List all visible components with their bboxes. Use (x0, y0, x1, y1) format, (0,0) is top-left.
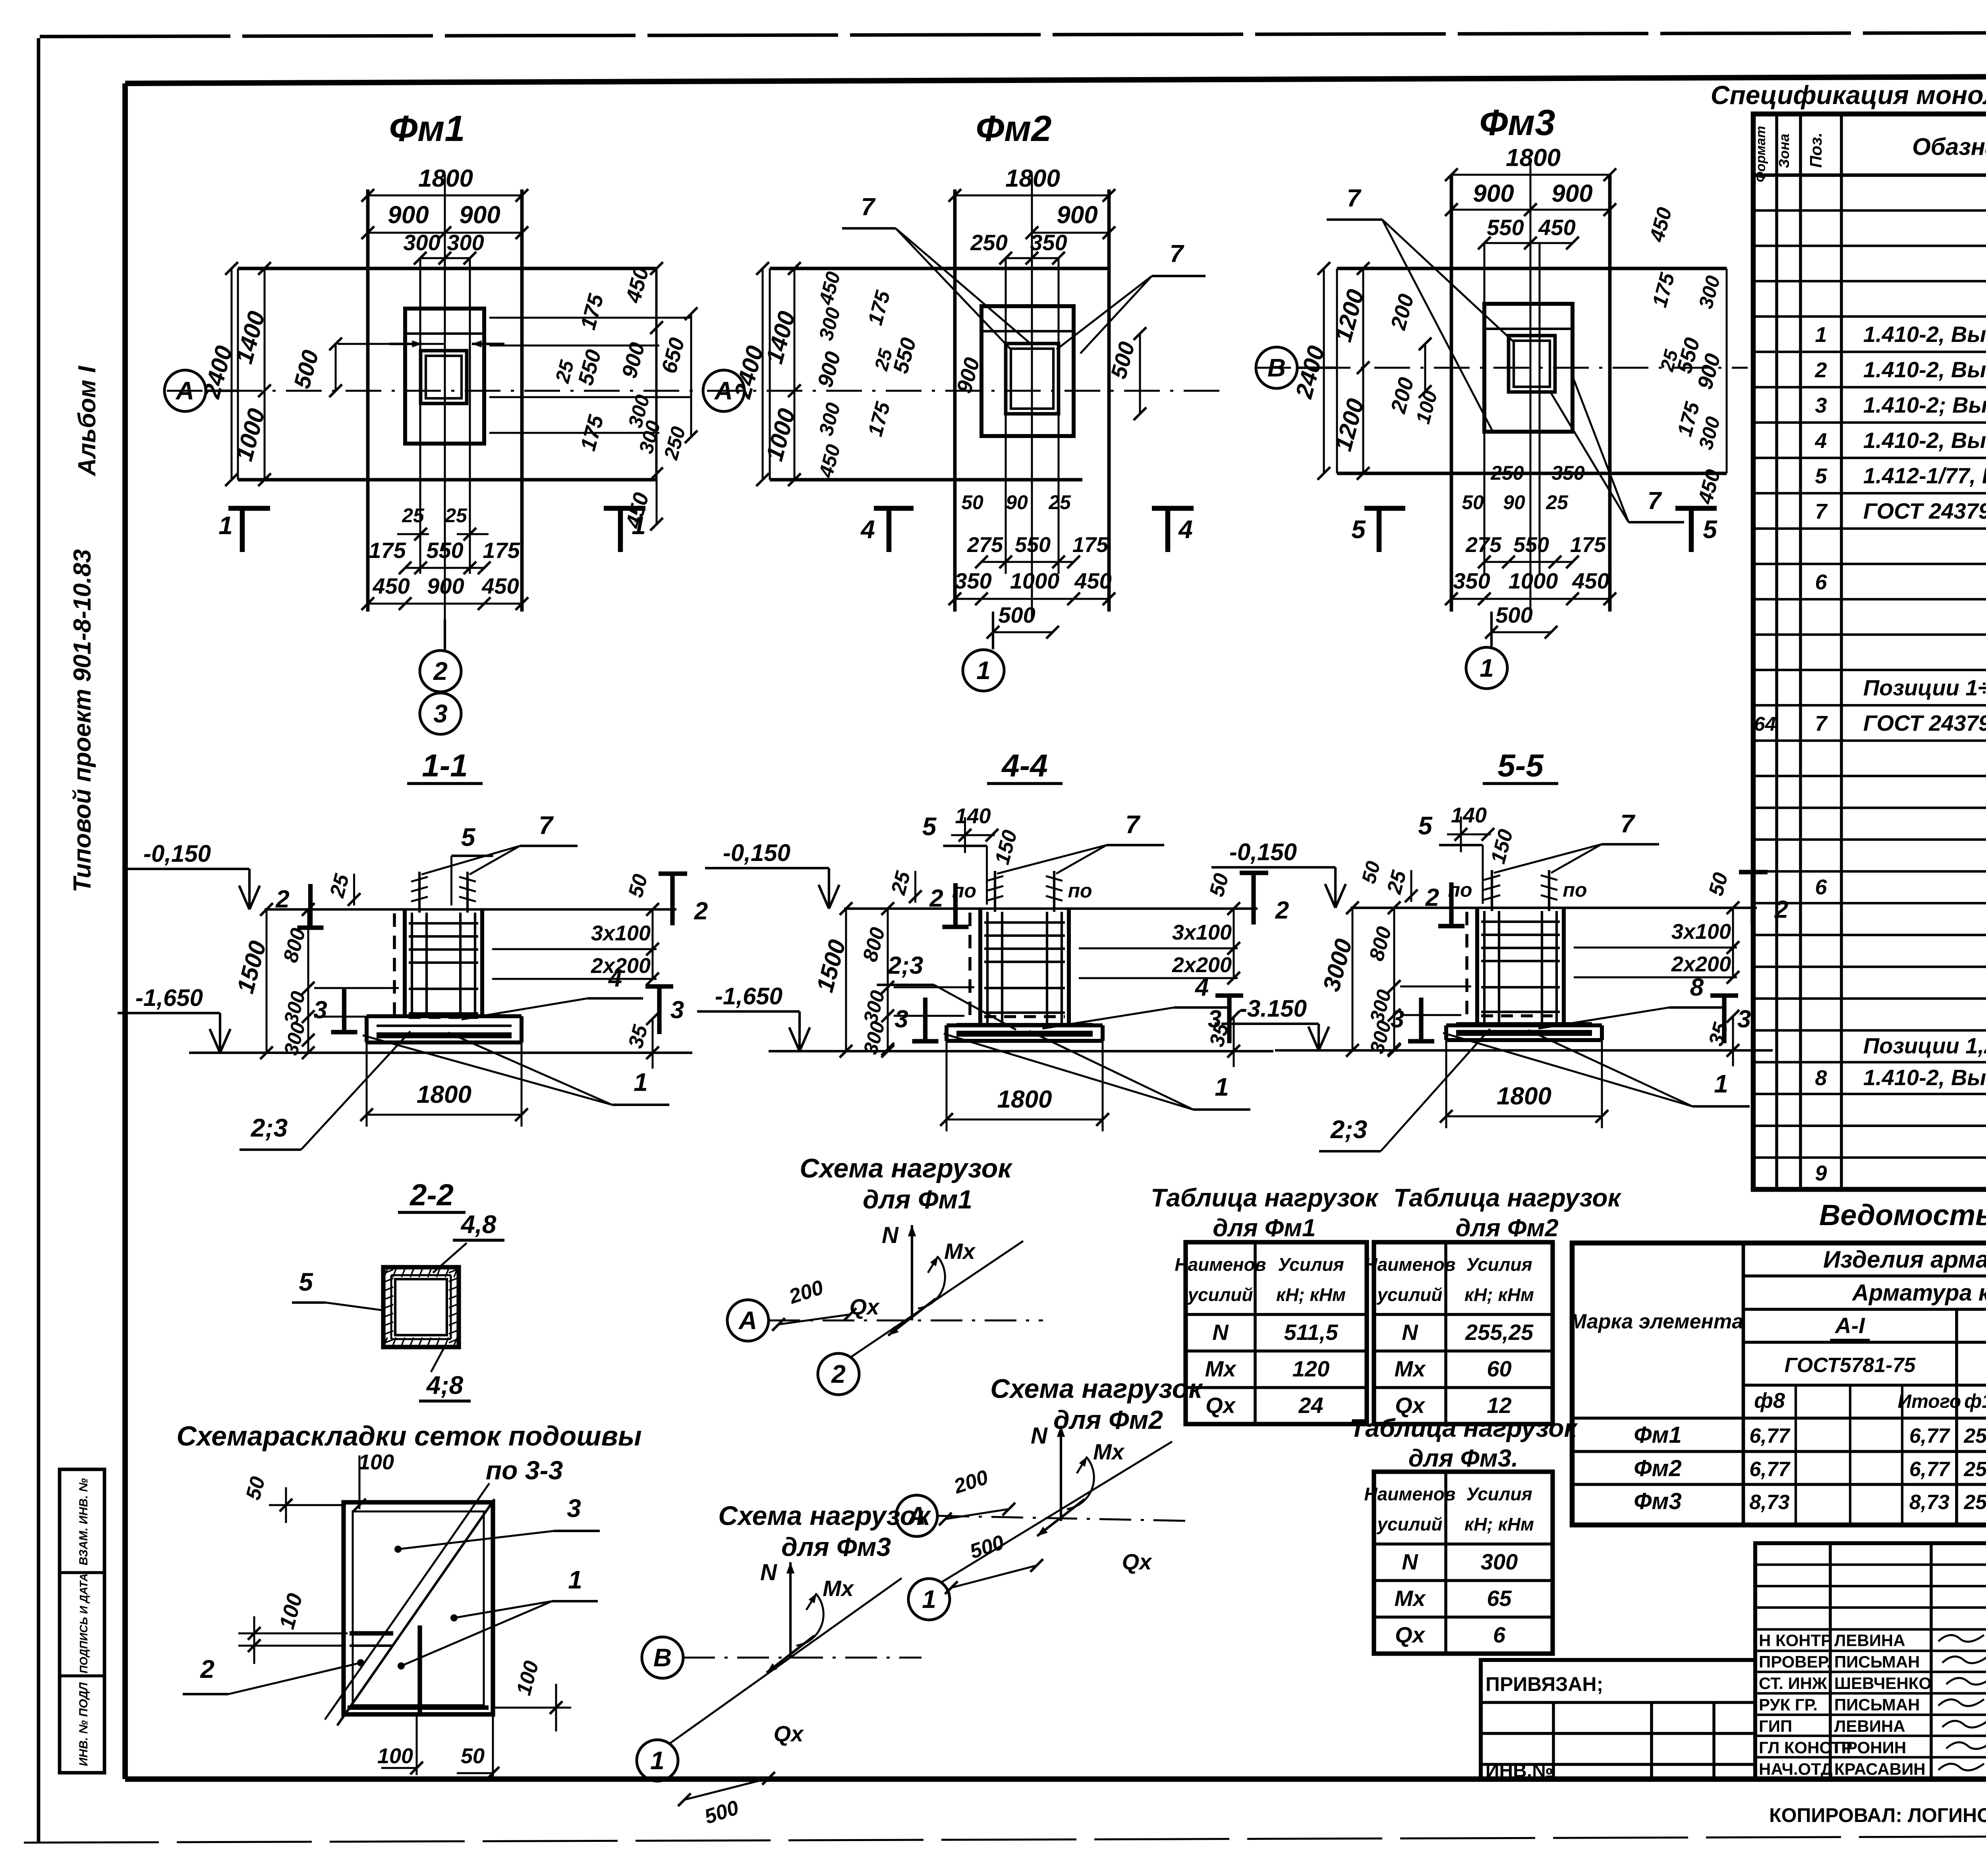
svg-text:по: по (1448, 879, 1472, 901)
plan Fm3 pedestal (1484, 304, 1573, 432)
svg-text:Qх: Qх (1395, 1622, 1426, 1647)
svg-text:3: 3 (1391, 1006, 1404, 1033)
svg-text:4: 4 (1178, 515, 1193, 544)
svg-text:N: N (1402, 1320, 1418, 1345)
load scheme Фм2 diagonal (941, 1442, 1172, 1583)
section 1-1 right spacing dims (652, 909, 654, 979)
svg-text:275: 275 (967, 533, 1003, 557)
section 4-4 base line (769, 1050, 1273, 1052)
svg-text:100: 100 (377, 1744, 413, 1768)
svg-text:5: 5 (299, 1268, 313, 1296)
svg-text:Таблица нагрузок: Таблица нагрузок (1151, 1183, 1379, 1212)
svg-text:2: 2 (1275, 897, 1289, 924)
svg-text:7: 7 (1170, 240, 1184, 268)
plan Fm3 section marks 5 (1377, 508, 1382, 552)
svg-text:Усилия: Усилия (1466, 1484, 1532, 1504)
svg-text:4: 4 (1814, 429, 1827, 453)
svg-text:50: 50 (461, 1744, 485, 1768)
load scheme Фм3 axis line (683, 1657, 922, 1659)
svg-text:90: 90 (1503, 491, 1525, 513)
svg-text:3: 3 (1208, 1006, 1221, 1033)
svg-text:-1,650: -1,650 (135, 984, 203, 1011)
svg-text:500: 500 (1495, 602, 1532, 627)
plan Fm1 axis circle A (164, 370, 206, 411)
svg-text:4,8: 4,8 (460, 1210, 496, 1239)
svg-text:5-5: 5-5 (1497, 748, 1544, 783)
svg-text:450: 450 (481, 573, 519, 598)
plan Fm2 extension verticals (1005, 258, 1007, 574)
svg-text:2: 2 (929, 885, 943, 912)
svg-text:64: 64 (1754, 713, 1776, 735)
svg-text:6,77: 6,77 (1909, 1458, 1950, 1481)
svg-text:Позиции 1÷5 см.: Позиции 1÷5 см. (1863, 675, 1986, 700)
svg-text:350: 350 (1551, 462, 1585, 484)
load scheme Фм2 dim 500 (951, 1565, 1037, 1588)
svg-text:8,73: 8,73 (1909, 1491, 1949, 1514)
plan Fm1 footing horizontal strip (238, 267, 656, 270)
svg-text:кН; кНм: кН; кНм (1464, 1284, 1534, 1305)
section 4-4 horizontal thin lines right (1079, 948, 1238, 950)
svg-text:РУК ГР.: РУК ГР. (1759, 1695, 1818, 1714)
svg-text:5: 5 (1815, 464, 1827, 488)
svg-text:175: 175 (1072, 533, 1109, 557)
svg-text:ПИСЬМАН: ПИСЬМАН (1834, 1652, 1920, 1671)
plan Fm2 footing vertical strip (953, 189, 957, 612)
load scheme Фм1 circle 2 (818, 1353, 859, 1395)
svg-text:1800: 1800 (1497, 1083, 1551, 1110)
load scheme Фм2 axis circle (896, 1495, 937, 1536)
title block signature table (1755, 1543, 1986, 1779)
svg-text:А-I: А-I (1834, 1313, 1865, 1338)
svg-text:кН; кНм: кН; кНм (1464, 1514, 1534, 1534)
svg-text:6: 6 (1493, 1622, 1506, 1647)
svg-text:2;3: 2;3 (1330, 1115, 1368, 1144)
svg-text:25: 25 (1048, 491, 1071, 513)
svg-text:25,2: 25,2 (1963, 1424, 1986, 1448)
plan Fm2 centerlines (1031, 175, 1033, 620)
plan Fm3 footing vertical strip (1450, 175, 1453, 612)
svg-text:для Фм2: для Фм2 (1455, 1214, 1558, 1242)
svg-text:Фм2: Фм2 (976, 108, 1051, 149)
svg-text:для Фм1: для Фм1 (863, 1185, 972, 1214)
svg-text:Фм3: Фм3 (1634, 1488, 1681, 1514)
svg-text:1: 1 (1215, 1073, 1229, 1101)
svg-text:1: 1 (1815, 323, 1827, 347)
svg-text:ЛЕВИНА: ЛЕВИНА (1834, 1631, 1905, 1650)
svg-text:Схема нагрузок: Схема нагрузок (990, 1374, 1204, 1404)
svg-text:50: 50 (1462, 491, 1484, 513)
plan Fm1 bottom circles 2 3 (444, 620, 446, 650)
svg-text:5: 5 (922, 812, 937, 841)
svg-text:для Фм1: для Фм1 (1213, 1214, 1316, 1242)
main frame (125, 75, 1986, 83)
svg-text:Спецификация монолитных фундам: Спецификация монолитных фундаментов (Фм1… (1711, 80, 1986, 110)
load scheme Фм3 diagonal (669, 1578, 902, 1744)
section 5-5 base line (1275, 1049, 1773, 1052)
svg-text:1-1: 1-1 (422, 748, 468, 783)
svg-text:25: 25 (444, 504, 468, 527)
section 1-1 footing (367, 1014, 522, 1018)
svg-text:усилий: усилий (1376, 1514, 1442, 1534)
svg-text:1.410-2; Вып.1: 1.410-2; Вып.1 (1863, 392, 1986, 417)
svg-text:по 3-3: по 3-3 (486, 1455, 563, 1485)
svg-text:Поз.: Поз. (1806, 133, 1825, 168)
section 4-4 section marks 3 (923, 998, 927, 1041)
plan Fm1 centerlines (444, 175, 446, 620)
load scheme Фм2 Mx arc (1067, 1457, 1094, 1509)
plan Fm3 extension verticals (1484, 243, 1486, 574)
svg-text:ф8: ф8 (1754, 1389, 1785, 1413)
svg-text:Фм1: Фм1 (389, 108, 465, 149)
section 1-1 footing extension lines (366, 1042, 368, 1127)
svg-text:ГОСТ5781-75: ГОСТ5781-75 (1785, 1354, 1916, 1377)
svg-text:1: 1 (632, 511, 646, 540)
mesh layout square (344, 1502, 493, 1714)
svg-text:175: 175 (1570, 533, 1606, 557)
svg-text:1800: 1800 (997, 1086, 1052, 1113)
svg-text:ПРОВЕР.: ПРОВЕР. (1759, 1652, 1831, 1671)
section 5-5 footing (1446, 1023, 1602, 1027)
svg-text:65: 65 (1487, 1586, 1512, 1611)
svg-text:1800: 1800 (1506, 144, 1561, 172)
svg-text:1: 1 (976, 656, 991, 685)
svg-text:по: по (952, 880, 976, 902)
svg-text:ПИСЬМАН: ПИСЬМАН (1834, 1695, 1920, 1714)
svg-text:Мх: Мх (1395, 1586, 1427, 1611)
svg-text:НАЧ.ОТД: НАЧ.ОТД (1759, 1760, 1833, 1778)
svg-text:4: 4 (860, 515, 875, 544)
svg-text:Таблица нагрузок: Таблица нагрузок (1393, 1183, 1622, 1212)
load scheme Фм3 axis circle (642, 1637, 683, 1678)
svg-text:ф10: ф10 (1964, 1390, 1986, 1412)
svg-text:для Фм2: для Фм2 (1053, 1405, 1163, 1434)
section 5-5 base mesh (1456, 1030, 1592, 1036)
plan Fm3 footing horizontal strip (1337, 267, 1727, 270)
svg-text:Фм3: Фм3 (1479, 102, 1555, 143)
svg-text:6: 6 (1815, 875, 1827, 899)
svg-text:Ведомость расхода стали на эле: Ведомость расхода стали на элемент, кГ (1819, 1199, 1986, 1231)
svg-text:Наименов: Наименов (1364, 1254, 1455, 1275)
section 1-1 horizontal thin lines right (492, 948, 657, 950)
svg-text:усилий: усилий (1187, 1284, 1253, 1305)
section 5-5 rebar cage (1483, 911, 1486, 1026)
svg-text:550: 550 (1487, 215, 1524, 240)
svg-text:6,77: 6,77 (1909, 1424, 1950, 1448)
steel table header cells (1742, 1243, 1745, 1525)
plan Fm3 left dims 2400 1200 1200 (1323, 268, 1325, 473)
section 5-5 anchor bolts top (1491, 870, 1493, 911)
section 5-5 section marks 3 (1419, 998, 1423, 1041)
svg-text:1: 1 (568, 1565, 582, 1594)
svg-text:2: 2 (433, 657, 448, 685)
plan Fm3 axis circle B (1256, 347, 1297, 388)
svg-text:по: по (1068, 880, 1092, 902)
svg-text:350: 350 (1453, 568, 1490, 593)
svg-text:1: 1 (218, 511, 233, 540)
plan Fm2 pedestal (981, 306, 1074, 436)
svg-text:Зона: Зона (1776, 134, 1792, 168)
load table для Фм1 grid (1186, 1242, 1367, 1424)
section 1-1 ground line (265, 908, 676, 911)
svg-text:Усилия: Усилия (1278, 1254, 1344, 1275)
section 5-5 right spacing dims (1732, 908, 1734, 977)
svg-text:ИНВ.№: ИНВ.№ (1486, 1760, 1553, 1781)
svg-text:900: 900 (427, 573, 464, 598)
load scheme Фм2 circle 1 (908, 1579, 950, 1620)
svg-text:7: 7 (539, 811, 554, 840)
svg-text:Фм1: Фм1 (1634, 1422, 1681, 1448)
svg-text:3: 3 (433, 699, 448, 728)
svg-text:120: 120 (1292, 1356, 1329, 1381)
svg-text:А: А (175, 376, 194, 405)
load table для Фм2 grid (1374, 1242, 1553, 1424)
svg-text:Мх: Мх (1205, 1356, 1237, 1381)
svg-text:7: 7 (1347, 185, 1362, 212)
load scheme Фм1 axis circle (727, 1300, 769, 1341)
svg-text:1.412-1/77, Вып.3: 1.412-1/77, Вып.3 (1863, 463, 1986, 488)
svg-text:900: 900 (1473, 180, 1514, 207)
specification table grid (1753, 114, 1986, 1189)
svg-text:В: В (653, 1643, 672, 1672)
svg-text:N: N (1031, 1423, 1048, 1449)
svg-text:4;8: 4;8 (426, 1371, 464, 1399)
load scheme Фм1 Mx arc (918, 1257, 945, 1309)
svg-text:Qх: Qх (850, 1294, 881, 1319)
svg-text:ВЗАМ. ИНВ. №: ВЗАМ. ИНВ. № (77, 1478, 90, 1565)
svg-text:4: 4 (1194, 974, 1209, 1001)
svg-text:3: 3 (894, 1006, 908, 1033)
load table для Фм3. grid (1374, 1472, 1553, 1654)
svg-text:100: 100 (358, 1450, 394, 1474)
plan Fm2 footing horizontal strip (770, 267, 1109, 270)
svg-text:7: 7 (1815, 500, 1828, 523)
svg-text:Qх: Qх (1122, 1549, 1153, 1574)
svg-text:60: 60 (1487, 1356, 1511, 1381)
svg-text:3х100: 3х100 (1172, 921, 1232, 944)
svg-text:ПРОНИН: ПРОНИН (1834, 1738, 1906, 1757)
plan Fm3 column cup (1509, 336, 1555, 392)
section 5-5 left dims (1352, 908, 1354, 1050)
svg-text:6,77: 6,77 (1749, 1458, 1790, 1481)
svg-text:2х200: 2х200 (1671, 952, 1731, 976)
load scheme Фм2 Qx arrow (1037, 1499, 1085, 1536)
svg-text:Таблица нагрузок: Таблица нагрузок (1350, 1414, 1578, 1442)
svg-text:2: 2 (1814, 358, 1827, 382)
svg-text:-0,150: -0,150 (1229, 839, 1297, 865)
section 5-5 footing extension lines (1445, 1040, 1447, 1128)
svg-text:Изделия арматурные: Изделия арматурные (1823, 1246, 1986, 1273)
svg-text:6: 6 (1815, 570, 1827, 594)
svg-text:Мх: Мх (1395, 1356, 1427, 1381)
section 1-1 section marks 2 (308, 884, 313, 928)
load scheme Фм1 axis line (769, 1320, 1043, 1322)
section 4-4 section marks 2 (953, 883, 958, 927)
svg-text:50: 50 (961, 491, 983, 513)
load scheme Фм3 N arrow (789, 1562, 792, 1658)
svg-text:900: 900 (1057, 201, 1097, 229)
svg-text:8: 8 (1690, 974, 1704, 1001)
detail 2-2 square (383, 1267, 459, 1347)
svg-text:-3.150: -3.150 (1239, 995, 1307, 1022)
section 4-4 ground line (844, 907, 1258, 910)
svg-text:Марка элемента: Марка элемента (1569, 1310, 1743, 1333)
plan Fm2 axis circle A (703, 370, 744, 411)
plan Fm2 section marks 4 (887, 508, 892, 552)
svg-text:В: В (1267, 353, 1286, 382)
section 4-4 footing (947, 1023, 1103, 1027)
section 1-1 horizontal thin lines left (314, 987, 399, 989)
steel table grid (1572, 1243, 1986, 1525)
section 5-5 column (1475, 908, 1479, 1025)
svg-text:1800: 1800 (417, 1081, 471, 1108)
svg-text:Н КОНТР: Н КОНТР (1759, 1631, 1832, 1650)
svg-text:ГИП: ГИП (1759, 1717, 1792, 1735)
svg-text:1.410-2, Вып. 1: 1.410-2, Вып. 1 (1863, 428, 1986, 453)
svg-text:3х100: 3х100 (591, 921, 651, 945)
svg-text:450: 450 (1538, 215, 1575, 240)
svg-text:Наименов: Наименов (1364, 1484, 1455, 1504)
svg-text:7: 7 (1620, 809, 1636, 838)
svg-text:-0,150: -0,150 (143, 840, 211, 867)
section 5-5 section marks 2 (1449, 882, 1453, 926)
svg-text:Схемараскладки сеток подошвы: Схемараскладки сеток подошвы (176, 1421, 641, 1451)
svg-text:ПРИВЯЗАН;: ПРИВЯЗАН; (1486, 1673, 1603, 1695)
svg-text:7: 7 (861, 193, 876, 221)
svg-text:5: 5 (1418, 811, 1433, 840)
svg-text:Фм2: Фм2 (1634, 1455, 1681, 1481)
svg-text:6,77: 6,77 (1749, 1424, 1790, 1448)
svg-text:для Фм3: для Фм3 (781, 1532, 891, 1561)
svg-text:5: 5 (461, 823, 476, 851)
load scheme Фм2 dim 200 (945, 1509, 1009, 1519)
plan Fm1 right dim chain (656, 268, 658, 524)
section 1-1 anchor bolts top (418, 872, 421, 913)
section 4-4 anchor bolts top (994, 871, 996, 912)
svg-text:300: 300 (403, 230, 440, 255)
section 1-1 base mesh (377, 1033, 512, 1038)
svg-text:N: N (882, 1222, 899, 1248)
svg-text:Типовой проект 901-8-10.83: Типовой проект 901-8-10.83 (69, 549, 96, 892)
svg-text:1000: 1000 (1509, 568, 1558, 593)
plan Fm3 bottom circle 1 (1490, 612, 1493, 647)
svg-text:ПОДПИСЬ И ДАТА: ПОДПИСЬ И ДАТА (77, 1573, 90, 1673)
svg-text:1: 1 (650, 1746, 665, 1775)
section 4-4 left dims (845, 909, 847, 1051)
section 5-5 ground line (1350, 907, 1757, 909)
svg-text:Усилия: Усилия (1466, 1254, 1532, 1275)
svg-text:175: 175 (483, 538, 520, 563)
svg-text:511,5: 511,5 (1284, 1320, 1339, 1345)
svg-text:2: 2 (694, 897, 708, 925)
svg-text:для Фм3.: для Фм3. (1408, 1445, 1518, 1472)
svg-text:-1,650: -1,650 (715, 983, 782, 1009)
page outer border (37, 38, 41, 1843)
svg-text:3: 3 (567, 1494, 581, 1523)
svg-text:СТ. ИНЖ: СТ. ИНЖ (1759, 1674, 1828, 1693)
svg-text:1.410-2, Вып. 1: 1.410-2, Вып. 1 (1863, 357, 1986, 382)
load scheme Фм3 Mx arc (796, 1594, 823, 1646)
svg-text:Схема нагрузок: Схема нагрузок (800, 1153, 1013, 1183)
load scheme Фм2 axis line (937, 1516, 1192, 1521)
load scheme Фм1 N arrow (911, 1225, 913, 1320)
svg-text:25,2: 25,2 (1963, 1491, 1986, 1514)
svg-text:900: 900 (459, 201, 500, 229)
svg-text:N: N (760, 1559, 777, 1585)
svg-text:3: 3 (1815, 394, 1827, 417)
svg-text:А: А (738, 1306, 757, 1335)
svg-text:ШЕВЧЕНКО: ШЕВЧЕНКО (1834, 1674, 1932, 1693)
section 5-5 horizontal thin lines left (1400, 986, 1471, 988)
svg-text:2: 2 (200, 1655, 214, 1683)
section 4-4 rebar cage (986, 912, 989, 1026)
svg-text:5: 5 (1351, 515, 1366, 544)
left stamp boxes (60, 1469, 104, 1773)
load scheme Фм1 dim 200 (779, 1314, 850, 1324)
svg-text:90: 90 (1006, 491, 1028, 513)
svg-text:N: N (1212, 1320, 1229, 1345)
svg-text:7: 7 (1815, 712, 1828, 735)
svg-text:КРАСАВИН: КРАСАВИН (1834, 1760, 1926, 1778)
section 4-4 right spacing dims (1233, 909, 1235, 978)
section 4-4 base mesh (956, 1031, 1093, 1037)
svg-text:Арматура класса: Арматура класса (1851, 1280, 1986, 1306)
svg-text:4-4: 4-4 (1001, 748, 1048, 783)
plan Fm2 bottom circle 1 (992, 612, 994, 649)
plan Fm1 section marks 1-1 (240, 508, 245, 552)
svg-text:ГОСТ 24379.1-80: ГОСТ 24379.1-80 (1863, 498, 1986, 523)
svg-text:250: 250 (1490, 462, 1524, 484)
svg-text:900: 900 (1551, 180, 1592, 207)
plan Fm1 dim 500 vertical (335, 344, 337, 391)
svg-text:4: 4 (608, 965, 622, 992)
section 1-1 column (403, 909, 407, 1016)
section 5-5 horizontal thin lines right (1574, 947, 1737, 949)
svg-text:по: по (1563, 879, 1587, 901)
plan Fm1 footing vertical strip (366, 189, 370, 612)
section 1-1 base line (189, 1052, 692, 1054)
svg-text:175: 175 (369, 538, 406, 563)
plan Fm1 bolt dim 500 arrows (338, 343, 445, 345)
svg-text:24: 24 (1298, 1393, 1323, 1418)
svg-text:3: 3 (670, 996, 684, 1024)
svg-text:350: 350 (954, 568, 991, 593)
svg-text:Мх: Мх (1093, 1439, 1125, 1464)
svg-text:Альбом I: Альбом I (73, 365, 101, 477)
svg-text:1000: 1000 (1010, 568, 1060, 593)
section 1-1 section marks 3 (342, 988, 346, 1032)
svg-text:450: 450 (372, 573, 410, 598)
svg-text:2х200: 2х200 (1172, 953, 1232, 977)
plan Fm2 left dims (762, 268, 764, 480)
svg-text:255,25: 255,25 (1465, 1320, 1534, 1345)
svg-text:900: 900 (388, 201, 429, 229)
svg-text:550: 550 (426, 538, 463, 563)
svg-text:1: 1 (922, 1585, 936, 1614)
svg-text:8: 8 (1815, 1066, 1827, 1090)
svg-text:1.410-2, Вып.1: 1.410-2, Вып.1 (1863, 1065, 1986, 1090)
svg-text:25: 25 (402, 504, 425, 527)
load scheme Фм3 dim 500 (684, 1778, 769, 1800)
svg-text:3: 3 (313, 996, 327, 1024)
svg-text:ИНВ. № ПОДЛ: ИНВ. № ПОДЛ (77, 1682, 90, 1766)
plan Fm1 left dims 2400 1400 1000 (231, 268, 233, 480)
section 4-4 footing extension lines (946, 1041, 948, 1131)
load scheme Фм2 N arrow (1060, 1426, 1062, 1521)
svg-text:1.410-2, Вып.1: 1.410-2, Вып.1 (1863, 322, 1986, 347)
svg-text:350: 350 (1030, 230, 1067, 255)
svg-text:8,73: 8,73 (1749, 1491, 1789, 1514)
svg-text:1: 1 (1714, 1069, 1728, 1098)
